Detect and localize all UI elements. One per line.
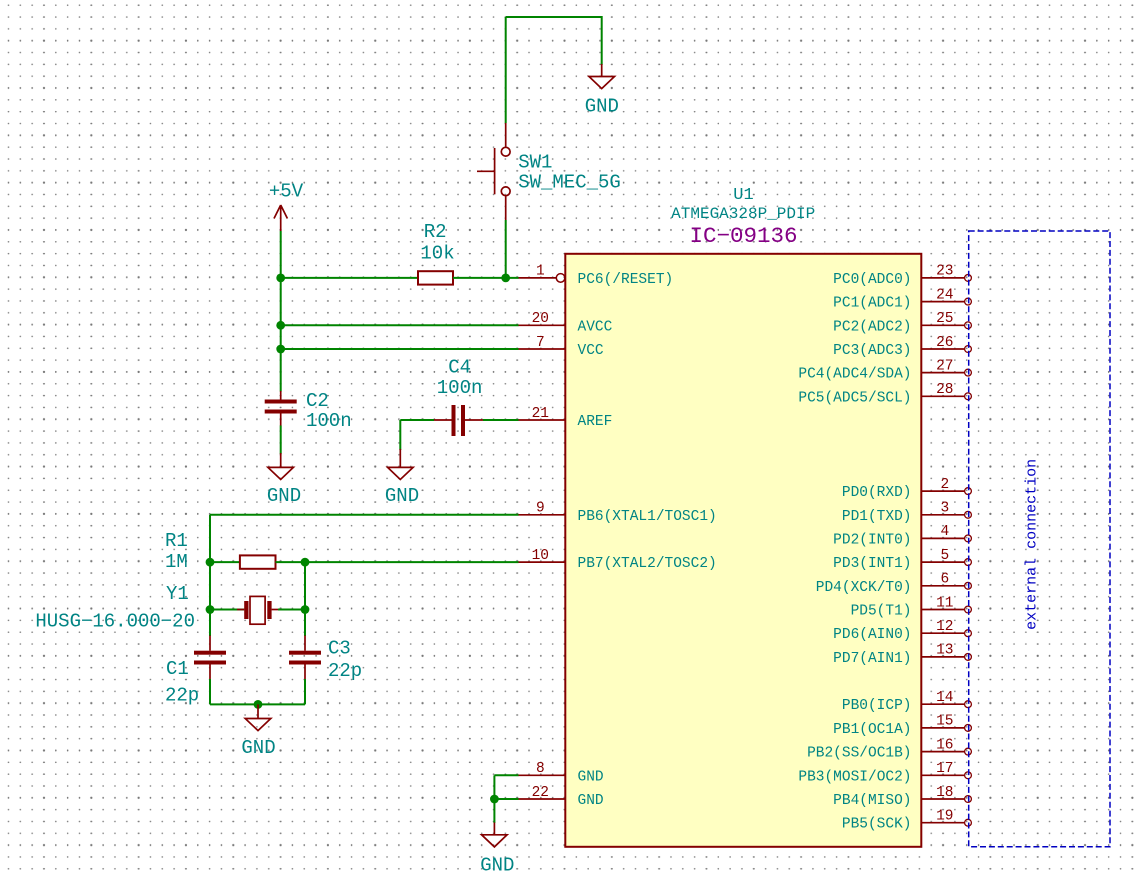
svg-text:PD3(INT1): PD3(INT1)	[833, 556, 911, 572]
svg-text:GND: GND	[385, 485, 419, 507]
junction Y1 right	[301, 605, 310, 614]
pin 6 PD4(XCK/T0)	[816, 572, 972, 596]
svg-text:PD4(XCK/T0): PD4(XCK/T0)	[816, 580, 912, 596]
svg-text:C2: C2	[306, 390, 329, 412]
pin 14 PB0(ICP)	[842, 690, 972, 714]
pin 23 PC0(ADC0)	[833, 264, 971, 288]
resistor R1	[210, 555, 305, 568]
switch SW1 SW_MEC_5G	[477, 123, 510, 220]
svg-text:SW1: SW1	[518, 151, 552, 173]
svg-text:28: 28	[936, 382, 953, 398]
wire to C1	[209, 610, 211, 637]
pin 20 AVCC	[518, 311, 613, 335]
junction +5V rail	[276, 274, 285, 283]
svg-text:1M: 1M	[165, 551, 188, 573]
pin 15 PB1(OC1A)	[833, 714, 971, 738]
junction R1 right	[301, 558, 310, 567]
svg-text:external connection: external connection	[1024, 459, 1041, 630]
pin 21 AREF	[518, 406, 612, 430]
wire left column	[209, 562, 211, 609]
svg-text:PC3(ADC3): PC3(ADC3)	[833, 343, 911, 359]
pin 1 PC6(/RESET)	[518, 264, 673, 288]
pin 9 PB6(XTAL1/TOSC1)	[518, 501, 717, 525]
svg-text:6: 6	[940, 572, 949, 588]
wire SW1 to reset node	[505, 220, 507, 278]
svg-text:GND: GND	[241, 737, 275, 759]
pin 3 PD1(TXD)	[842, 501, 972, 525]
svg-text:PB2(SS/OC1B): PB2(SS/OC1B)	[807, 746, 911, 762]
ground GND (bottom)	[482, 823, 508, 847]
pin 12 PD6(AIN0)	[833, 619, 971, 643]
svg-text:7: 7	[536, 335, 545, 351]
pin 7 VCC	[518, 335, 604, 359]
svg-text:VCC: VCC	[578, 343, 604, 359]
pin 8 GND	[518, 761, 604, 785]
svg-text:+5V: +5V	[269, 181, 304, 203]
svg-text:PD7(AIN1): PD7(AIN1)	[833, 651, 911, 667]
svg-text:20: 20	[532, 311, 549, 327]
wire down to SW1	[505, 17, 507, 123]
wire C4 to AREF pin	[483, 419, 519, 421]
junction GND pins	[490, 795, 499, 804]
svg-text:22p: 22p	[165, 684, 199, 706]
wire XTAL1 (pin 9)	[210, 514, 519, 516]
wire pin8 GND	[494, 774, 518, 776]
wire VCC	[281, 348, 519, 350]
svg-text:AREF: AREF	[578, 414, 613, 430]
svg-text:18: 18	[936, 785, 953, 801]
wire	[399, 420, 401, 450]
dashed graphic box: external connection	[969, 231, 1110, 847]
svg-text:100n: 100n	[306, 410, 352, 432]
svg-text:SW_MEC_5G: SW_MEC_5G	[518, 171, 621, 193]
pin 13 PD7(AIN1)	[833, 643, 971, 667]
pin 22 GND	[518, 785, 604, 809]
pin 25 PC2(ADC2)	[833, 311, 971, 335]
svg-text:2: 2	[940, 477, 949, 493]
svg-text:3: 3	[940, 501, 949, 517]
svg-text:1: 1	[536, 264, 545, 280]
svg-text:PB6(XTAL1/TOSC1): PB6(XTAL1/TOSC1)	[578, 509, 717, 525]
wire	[601, 16, 603, 65]
crystal Y1	[210, 596, 305, 624]
pin 11 PD5(T1)	[851, 595, 972, 619]
svg-text:PC4(ADC4/SDA): PC4(ADC4/SDA)	[798, 367, 911, 383]
wire AVCC	[281, 324, 519, 326]
svg-text:11: 11	[936, 595, 953, 611]
svg-text:PC1(ADC1): PC1(ADC1)	[833, 296, 911, 312]
wire +5V rail vertical	[280, 278, 282, 349]
wire	[493, 775, 495, 799]
svg-text:PB5(SCK): PB5(SCK)	[842, 817, 912, 833]
pin 24 PC1(ADC1)	[833, 287, 971, 311]
svg-text:PC0(ADC0): PC0(ADC0)	[833, 272, 911, 288]
svg-text:PD0(RXD): PD0(RXD)	[842, 485, 912, 501]
wire C1 down	[209, 679, 211, 704]
svg-text:GND: GND	[585, 95, 619, 117]
svg-text:PD5(T1): PD5(T1)	[851, 604, 912, 620]
svg-text:5: 5	[940, 548, 949, 564]
capacitor C4	[434, 405, 483, 436]
svg-text:PB3(MOSI/OC2): PB3(MOSI/OC2)	[798, 769, 911, 785]
svg-text:AVCC: AVCC	[578, 319, 613, 335]
svg-text:12: 12	[936, 619, 953, 635]
svg-text:9: 9	[536, 501, 545, 517]
junction VCC	[276, 345, 285, 354]
ground GND (C4)	[388, 449, 414, 480]
svg-text:GND: GND	[578, 769, 604, 785]
svg-text:GND: GND	[578, 793, 604, 809]
resistor R2	[418, 271, 453, 284]
junction AVCC	[276, 321, 285, 330]
wire to C3	[304, 610, 306, 637]
svg-text:26: 26	[936, 335, 953, 351]
ground GND (C2)	[268, 453, 294, 480]
ground GND (top right)	[589, 64, 615, 89]
svg-text:PD6(AIN0): PD6(AIN0)	[833, 627, 911, 643]
svg-text:14: 14	[936, 690, 953, 706]
svg-text:PD1(TXD): PD1(TXD)	[842, 509, 912, 525]
svg-text:U1: U1	[733, 186, 753, 205]
svg-text:PD2(INT0): PD2(INT0)	[833, 532, 911, 548]
svg-text:13: 13	[936, 643, 953, 659]
wire +5V down	[280, 231, 282, 278]
pin 17 PB3(MOSI/OC2)	[798, 761, 971, 785]
pin 10 PB7(XTAL2/TOSC2)	[518, 548, 717, 572]
op-amp U1 body: ATMEGA328P_PDIP IC rectangle	[565, 254, 921, 847]
wire	[209, 515, 211, 562]
pin 18 PB4(MISO)	[833, 785, 971, 809]
svg-text:21: 21	[532, 406, 549, 422]
pin 16 PB2(SS/OC1B)	[807, 737, 971, 761]
svg-text:24: 24	[936, 287, 953, 303]
power +5V symbol	[274, 205, 287, 231]
wire XTAL2 (pin 10)	[305, 561, 519, 563]
svg-text:IC−09136: IC−09136	[689, 223, 797, 249]
svg-text:25: 25	[936, 311, 953, 327]
svg-text:PC2(ADC2): PC2(ADC2)	[833, 319, 911, 335]
wire node to R2	[281, 277, 418, 279]
wire C2 to GND	[280, 426, 282, 455]
svg-text:16: 16	[936, 737, 953, 753]
svg-text:GND: GND	[480, 855, 514, 877]
svg-text:22: 22	[532, 785, 549, 801]
pin 5 PD3(INT1)	[833, 548, 971, 572]
svg-text:PB4(MISO): PB4(MISO)	[833, 793, 911, 809]
svg-text:Y1: Y1	[166, 583, 189, 605]
svg-text:HUSG−16.000−20: HUSG−16.000−20	[35, 610, 195, 632]
pin 27 PC4(ADC4/SDA)	[798, 358, 971, 382]
svg-text:C1: C1	[166, 658, 189, 680]
junction crystal GND	[254, 700, 263, 709]
svg-text:10k: 10k	[420, 242, 454, 264]
svg-text:10: 10	[532, 548, 549, 564]
capacitor C2	[265, 391, 297, 426]
junction Y1 left	[206, 605, 215, 614]
svg-text:R2: R2	[424, 221, 447, 243]
wire pin22 GND	[494, 798, 518, 800]
junction reset/SW1	[501, 274, 510, 283]
pin 2 PD0(RXD)	[842, 477, 972, 501]
wire rail to C2	[280, 349, 282, 392]
svg-text:22p: 22p	[328, 660, 362, 682]
svg-text:8: 8	[536, 761, 545, 777]
svg-text:PB0(ICP): PB0(ICP)	[842, 698, 912, 714]
svg-text:4: 4	[940, 524, 949, 540]
svg-text:C4: C4	[448, 356, 471, 378]
svg-text:17: 17	[936, 761, 953, 777]
wire down	[493, 799, 495, 823]
pin 4 PD2(INT0)	[833, 524, 971, 548]
svg-text:GND: GND	[267, 485, 301, 507]
svg-text:ATMEGA328P_PDIP: ATMEGA328P_PDIP	[671, 205, 815, 223]
wire C3 down	[304, 679, 306, 704]
wire AREF corner	[400, 419, 434, 421]
wire R2 to pin1	[453, 277, 519, 279]
svg-text:PB7(XTAL2/TOSC2): PB7(XTAL2/TOSC2)	[578, 556, 717, 572]
capacitor C3	[289, 636, 321, 681]
svg-text:23: 23	[936, 264, 953, 280]
svg-text:PC6(/RESET): PC6(/RESET)	[578, 272, 674, 288]
svg-text:100n: 100n	[437, 377, 483, 399]
ground GND (crystal)	[245, 704, 271, 730]
svg-text:R1: R1	[165, 530, 188, 552]
svg-text:PC5(ADC5/SCL): PC5(ADC5/SCL)	[798, 390, 911, 406]
svg-text:19: 19	[936, 809, 953, 825]
svg-text:C3: C3	[328, 638, 351, 660]
wire bottom joining	[210, 703, 305, 705]
wire SW1 top to GND: horizontal	[506, 16, 602, 18]
junction R1 left	[206, 558, 215, 567]
wire right column	[304, 562, 306, 609]
pin 28 PC5(ADC5/SCL)	[798, 382, 971, 406]
capacitor C1	[194, 636, 226, 681]
svg-text:27: 27	[936, 358, 953, 374]
svg-text:15: 15	[936, 714, 953, 730]
svg-text:PB1(OC1A): PB1(OC1A)	[833, 722, 911, 738]
pin 26 PC3(ADC3)	[833, 335, 971, 359]
pin 19 PB5(SCK)	[842, 809, 972, 833]
